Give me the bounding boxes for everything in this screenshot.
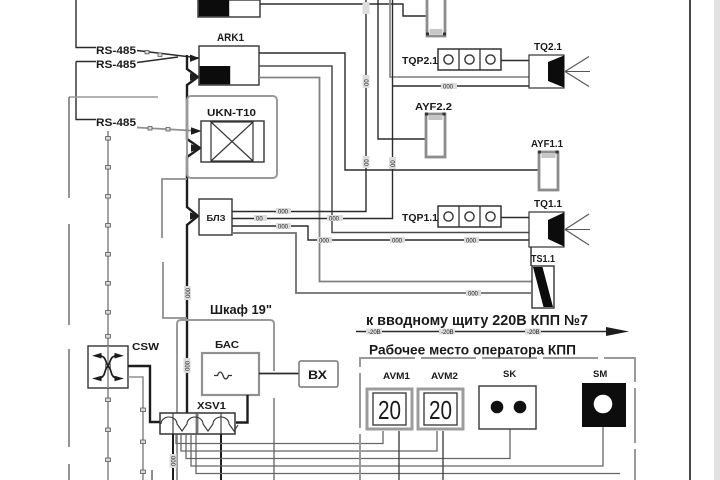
svg-text:000: 000 — [172, 455, 178, 466]
svg-text:000: 000 — [329, 217, 340, 223]
svg-text:00: 00 — [256, 217, 263, 223]
svg-text:000: 000 — [278, 210, 289, 216]
svg-text:-20В: -20В — [368, 330, 381, 336]
svg-text:000: 000 — [186, 360, 192, 371]
svg-text:TQP2.1: TQP2.1 — [402, 56, 438, 67]
svg-text:ВХ: ВХ — [308, 368, 327, 382]
svg-text:SM: SM — [593, 369, 607, 380]
svg-text:UKN-T10: UKN-T10 — [207, 107, 256, 119]
svg-text:CSW: CSW — [132, 341, 159, 353]
svg-text:TQP1.1: TQP1.1 — [402, 213, 438, 224]
svg-text:20: 20 — [378, 395, 401, 425]
svg-text:БАС: БАС — [215, 339, 239, 351]
svg-text:AVM1: AVM1 — [383, 371, 411, 382]
svg-text:TQ2.1: TQ2.1 — [534, 42, 562, 53]
svg-text:00: 00 — [391, 160, 397, 167]
svg-text:AYF2.2: AYF2.2 — [415, 101, 452, 113]
svg-text:AYF1.1: AYF1.1 — [531, 139, 563, 150]
svg-text:-20В: -20В — [527, 330, 540, 336]
svg-text:SK: SK — [503, 369, 516, 380]
svg-text:000: 000 — [392, 239, 403, 245]
svg-text:00: 00 — [365, 159, 371, 166]
svg-text:000: 000 — [466, 239, 477, 245]
svg-text:20: 20 — [429, 395, 452, 425]
svg-text:RS-485: RS-485 — [96, 117, 136, 129]
svg-text:000: 000 — [186, 287, 192, 298]
svg-text:000: 000 — [319, 239, 330, 245]
svg-text:TS1.1: TS1.1 — [531, 254, 555, 265]
svg-text:000: 000 — [443, 85, 454, 91]
svg-text:RS-485: RS-485 — [96, 45, 136, 57]
svg-text:000: 000 — [278, 225, 289, 231]
svg-text:TQ1.1: TQ1.1 — [534, 199, 562, 210]
svg-text:XSV1: XSV1 — [197, 400, 226, 412]
svg-text:Шкаф 19": Шкаф 19" — [210, 302, 272, 317]
svg-text:RS-485: RS-485 — [96, 59, 136, 71]
svg-text:-20В: -20В — [441, 330, 454, 336]
svg-text:Рабочее место оператора КПП: Рабочее место оператора КПП — [369, 342, 576, 358]
svg-text:00: 00 — [365, 79, 371, 86]
svg-text:БЛЗ: БЛЗ — [207, 214, 226, 223]
svg-text:ARK1: ARK1 — [217, 32, 244, 44]
svg-text:к вводному щиту 220В КПП №7: к вводному щиту 220В КПП №7 — [366, 313, 588, 329]
svg-text:AVM2: AVM2 — [431, 371, 458, 382]
svg-text:000: 000 — [468, 292, 479, 298]
